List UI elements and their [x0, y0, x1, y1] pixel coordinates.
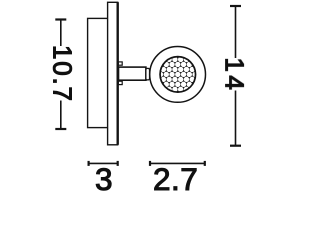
arm end cap — [146, 68, 150, 80]
dimension 10.7: top end tick — [55, 18, 66, 20]
back plate (side view) — [88, 18, 108, 127]
dimension 14: bottom end tick — [230, 145, 241, 147]
dimension 14: upper line segment — [235, 6, 237, 58]
dimension 2.7: line — [150, 162, 205, 164]
dimension 14: text label — [222, 57, 248, 93]
louver ring + dark base — [160, 57, 195, 92]
dimension 2.7: right end tick — [204, 161, 206, 166]
dimension 10.7: bottom end tick — [55, 128, 66, 130]
dimension 2.7: left end tick — [149, 161, 151, 166]
mounting tab top — [118, 62, 122, 65]
dimension 14: top end tick — [230, 5, 241, 7]
dimension 2.7: text label — [153, 164, 198, 196]
dimension 10.7: upper line segment — [60, 20, 62, 47]
head outer circle — [150, 47, 206, 103]
mounting tab bottom — [118, 81, 122, 84]
dimension 3: right end tick — [117, 161, 119, 166]
dimension 10.7: text label — [50, 45, 76, 103]
arm — [119, 67, 146, 80]
dimension 3: text label — [95, 164, 113, 196]
dimension 14: lower line segment — [235, 91, 237, 146]
front plate (side view) — [108, 2, 118, 145]
dimension 3: left end tick — [87, 161, 89, 166]
dimension 3: line — [89, 162, 118, 164]
honeycomb louver cells — [158, 57, 198, 92]
dimension 10.7: lower line segment — [60, 101, 62, 130]
front plate thick right edge — [116, 2, 118, 145]
